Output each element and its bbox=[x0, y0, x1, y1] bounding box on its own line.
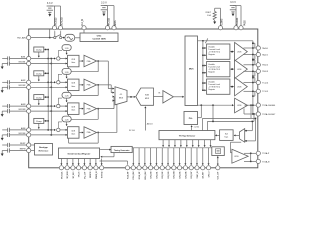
feedback loop channel 4 bbox=[97, 132, 99, 134]
line driver amplifier Q5 bbox=[232, 149, 248, 163]
CDS PGA block channel 4 bbox=[68, 127, 80, 139]
svg-text:TA-D1: TA-D1 bbox=[262, 53, 269, 56]
pin DIN_CH3 bbox=[166, 166, 170, 170]
wire stem DIN_CH2 bbox=[161, 148, 163, 165]
pin TX2A-CH0604 bbox=[256, 103, 260, 107]
wire mux bus to drivers bbox=[198, 40, 253, 42]
wire mux out bbox=[127, 96, 135, 98]
pin TC-D5 bbox=[256, 89, 260, 93]
wire stem FCLK_INM bbox=[132, 148, 134, 165]
svg-text:DIN_CH2: DIN_CH2 bbox=[162, 172, 164, 179]
svg-text:1 of 32: 1 of 32 bbox=[194, 127, 200, 129]
pin CLKIN bbox=[82, 26, 86, 30]
oscillator U2 bbox=[62, 37, 65, 39]
svg-text:SPI_SDO: SPI_SDO bbox=[73, 171, 75, 178]
svg-text:PWDN_IN: PWDN_IN bbox=[96, 171, 98, 179]
svg-text:Clamp: Clamp bbox=[36, 50, 43, 52]
PLL block bbox=[184, 112, 198, 125]
pin AVSS bbox=[112, 26, 116, 30]
svg-text:3.3 V: 3.3 V bbox=[47, 2, 53, 5]
svg-text:1 kΩ: 1 kΩ bbox=[207, 15, 212, 17]
svg-text:DGND33: DGND33 bbox=[61, 17, 64, 26]
svg-text:DIN_CH0: DIN_CH0 bbox=[151, 172, 153, 179]
wire serial stem IRQ_OUT bbox=[83, 159, 85, 165]
amplifier A4 bbox=[79, 131, 83, 133]
svg-text:TA-D0: TA-D0 bbox=[262, 47, 269, 50]
pin FCLK_INM bbox=[131, 166, 135, 170]
input coupling caps C7 C8 bbox=[2, 129, 8, 131]
svg-text:Clamp: Clamp bbox=[36, 97, 43, 99]
wire serial to timing bbox=[100, 149, 110, 151]
timing generator block bbox=[111, 146, 132, 152]
amplifier A3 bbox=[79, 108, 83, 110]
register block 3 bbox=[207, 79, 230, 94]
clamp block channel 2 bbox=[34, 71, 44, 76]
svg-text:DIN_CH7: DIN_CH7 bbox=[191, 172, 193, 179]
wires reference to bandgap bbox=[31, 144, 35, 146]
pin DIN_CH4 bbox=[172, 166, 176, 170]
wire tap mux to taps block bbox=[234, 134, 239, 136]
pin PWDN_IN bbox=[94, 166, 98, 170]
wire clamp-out channel 1 bbox=[44, 49, 48, 51]
svg-text:Register: Register bbox=[208, 53, 215, 56]
wire stem DIN_CH1 bbox=[155, 148, 157, 165]
ground (input group 3) bbox=[1, 111, 3, 114]
register block 2 bbox=[207, 62, 230, 77]
reference caps C9 C10 bbox=[2, 144, 8, 146]
svg-text:Taps: Taps bbox=[224, 136, 228, 138]
wire HIZ_AIN bbox=[31, 37, 54, 39]
pin TX2A-CH1007 bbox=[256, 112, 260, 116]
input coupling caps C3 C4 bbox=[2, 81, 8, 83]
svg-text:IRQ_OUT: IRQ_OUT bbox=[84, 171, 86, 179]
clamp block channel 1 bbox=[34, 47, 44, 52]
svg-text:DIN_CH4: DIN_CH4 bbox=[174, 172, 176, 179]
input coupling caps C5 C6 bbox=[2, 105, 8, 107]
pin SPI_CS bbox=[77, 166, 81, 170]
wire channel 4 to mux bbox=[97, 131, 117, 133]
svg-text:DIN_CH3: DIN_CH3 bbox=[168, 172, 170, 179]
pin AVDD bbox=[105, 26, 109, 30]
svg-text:HIZ_AIN: HIZ_AIN bbox=[17, 37, 26, 40]
driver 1 output wires bbox=[244, 47, 257, 49]
pin DIN_CH0 bbox=[149, 166, 153, 170]
svg-text:8x4: 8x4 bbox=[225, 133, 228, 135]
wire MICIN3 row bbox=[31, 110, 67, 112]
svg-text:TESTMD: TESTMD bbox=[102, 171, 104, 178]
svg-text:TX1A-P: TX1A-P bbox=[262, 152, 270, 155]
wire amp to output mux bbox=[173, 96, 183, 98]
pin DGND bbox=[58, 26, 62, 30]
ground (input group 2) bbox=[1, 87, 3, 90]
pin DIN_CH7 bbox=[189, 166, 193, 170]
wires into register block 1 bbox=[203, 47, 206, 49]
pin PVDD bbox=[234, 26, 238, 30]
pin PVSS bbox=[239, 26, 243, 30]
svg-text:ADCLK: ADCLK bbox=[147, 123, 154, 126]
svg-text:REFM: REFM bbox=[20, 148, 26, 150]
wire supply-left to pins bbox=[50, 5, 61, 7]
wire stem DIN_CH0 bbox=[150, 148, 152, 165]
wire VCM to pin bbox=[217, 156, 219, 166]
svg-text:TB-D3: TB-D3 bbox=[262, 71, 269, 73]
input coupling caps C1 C2 bbox=[2, 58, 8, 60]
svg-text:RESETB: RESETB bbox=[90, 171, 92, 178]
wire supply-center to pins bbox=[104, 5, 114, 7]
gain trim block channel 2 bbox=[62, 69, 71, 75]
pin TA-D0 bbox=[256, 46, 260, 50]
tap mux 2:1 bbox=[239, 129, 244, 143]
svg-text:MUX: MUX bbox=[145, 98, 150, 100]
svg-text:FCLK_INM: FCLK_INM bbox=[133, 171, 135, 179]
wire MICIN4 row bbox=[31, 134, 67, 136]
pin IRQ_OUT bbox=[82, 166, 86, 170]
clamp block channel 3 bbox=[34, 95, 44, 100]
svg-text:PVDD33: PVDD33 bbox=[236, 17, 239, 26]
svg-text:Serial Interface/Register: Serial Interface/Register bbox=[68, 153, 91, 156]
gain trim block channel 1 bbox=[62, 45, 71, 51]
wire MICIN1 row bbox=[31, 63, 67, 65]
wire mux to driver 4 bbox=[197, 104, 233, 106]
svg-text:AVSS: AVSS bbox=[114, 20, 117, 26]
svg-text:MICIN4: MICIN4 bbox=[19, 133, 27, 135]
summing node channel 1 bbox=[57, 57, 60, 60]
svg-text:Clamp: Clamp bbox=[36, 121, 43, 123]
mux 4:1 bbox=[115, 87, 127, 105]
driver amplifier Q4 bbox=[235, 98, 248, 113]
amplifier A2 bbox=[79, 84, 83, 86]
pin BCLK_INP bbox=[137, 166, 141, 170]
svg-text:Gain: Gain bbox=[71, 134, 75, 136]
svg-text:Gain: Gain bbox=[71, 86, 75, 88]
wire MICIN2 row bbox=[31, 86, 67, 88]
sub mux S-H bbox=[136, 88, 154, 105]
tap selector output stems bbox=[162, 140, 164, 147]
wire serial stem RESETB bbox=[89, 159, 91, 165]
serial interface block bbox=[59, 148, 100, 159]
pin SPI_SCLK bbox=[59, 166, 63, 170]
svg-text:CLK_RET: CLK_RET bbox=[203, 171, 205, 179]
driver amplifier Q3 bbox=[230, 86, 234, 88]
pin TB-D2 bbox=[256, 63, 260, 67]
summing node channel 2 bbox=[57, 81, 60, 84]
svg-text:Gain: Gain bbox=[71, 62, 75, 64]
pin DIN_CH5 bbox=[178, 166, 182, 170]
svg-text:TX2A-CH0604: TX2A-CH0604 bbox=[262, 104, 276, 107]
wire taps to tap selector bbox=[216, 134, 220, 136]
bandgap reference block bbox=[35, 144, 53, 156]
ground (input group 1) bbox=[1, 64, 3, 67]
tap selector block bbox=[159, 131, 215, 140]
svg-text:Register: Register bbox=[208, 70, 215, 73]
svg-text:4:1: 4:1 bbox=[120, 94, 123, 96]
svg-text:REFP: REFP bbox=[20, 143, 26, 145]
svg-text:R_BIAS: R_BIAS bbox=[221, 18, 224, 26]
CDS PGA block channel 3 bbox=[68, 103, 80, 115]
line driver output wires bbox=[244, 152, 256, 154]
svg-text:Bandgap: Bandgap bbox=[39, 147, 48, 149]
driver 3 output wires bbox=[244, 82, 257, 84]
svg-text:MUX: MUX bbox=[189, 68, 194, 70]
feedback loop channel 3 bbox=[97, 108, 99, 110]
wire serial stem SPI_SCLK bbox=[60, 159, 62, 165]
svg-text:TC-D4: TC-D4 bbox=[262, 82, 269, 84]
svg-text:DVDD33: DVDD33 bbox=[55, 17, 58, 26]
driver supply rail bbox=[252, 41, 254, 114]
gain trim block channel 4 bbox=[62, 116, 71, 122]
svg-text:MUX: MUX bbox=[119, 97, 124, 99]
wire stem DIN_CH7 bbox=[190, 148, 192, 165]
svg-text:Timing Generator: Timing Generator bbox=[114, 149, 130, 152]
svg-text:CLOCK GEN: CLOCK GEN bbox=[92, 39, 106, 41]
pin TX1A-P bbox=[256, 151, 260, 155]
wire stem BCLK_INM bbox=[144, 148, 146, 165]
wire stem DIN_CH4 bbox=[173, 148, 175, 165]
register block 1 bbox=[207, 44, 230, 59]
summing node channel 3 bbox=[57, 104, 60, 107]
clamp block channel 4 bbox=[34, 118, 44, 123]
taps block 8x4 bbox=[220, 130, 234, 141]
svg-text:OSC: OSC bbox=[97, 35, 102, 37]
pin FCLK_INP bbox=[125, 166, 129, 170]
wire clamp-out channel 3 bbox=[44, 96, 48, 98]
svg-text:BCLK_INP: BCLK_INP bbox=[139, 171, 141, 179]
svg-text:MICIN2: MICIN2 bbox=[19, 85, 27, 87]
svg-text:BCLK_INM: BCLK_INM bbox=[145, 171, 147, 179]
svg-text:VCM_OUT: VCM_OUT bbox=[218, 171, 220, 180]
driver 4 output wires bbox=[245, 104, 257, 106]
CDS PGA block channel 2 bbox=[68, 79, 80, 91]
svg-text:TX1A-N: TX1A-N bbox=[262, 160, 270, 163]
wires into register block 2 bbox=[203, 65, 206, 67]
svg-text:TB-D2: TB-D2 bbox=[262, 65, 269, 67]
gain trim block channel 3 bbox=[62, 92, 71, 98]
svg-text:TC-D5: TC-D5 bbox=[262, 91, 269, 93]
wire serial stem TESTMD bbox=[101, 159, 103, 165]
wire stem DIN_CH3 bbox=[167, 148, 169, 165]
svg-text:SYNC_IN: SYNC_IN bbox=[197, 171, 199, 179]
pin TESTMD bbox=[100, 166, 104, 170]
svg-text:Clamp: Clamp bbox=[36, 74, 43, 76]
svg-text:Reference: Reference bbox=[39, 151, 50, 153]
wire stem CLK_RET bbox=[202, 148, 204, 165]
svg-text:SPI_SDIN: SPI_SDIN bbox=[67, 171, 69, 179]
wire channel 3 to mux bbox=[97, 108, 114, 110]
driver amplifier Q1 bbox=[230, 51, 234, 53]
wire clamp-out channel 4 bbox=[44, 120, 48, 122]
pin GPIO_0 bbox=[206, 166, 210, 170]
svg-text:FCLK_INP: FCLK_INP bbox=[127, 171, 129, 179]
svg-text:DIN_CH5: DIN_CH5 bbox=[180, 172, 182, 179]
svg-text:TX Tap Selector: TX Tap Selector bbox=[179, 135, 196, 138]
wire AIN4 row bbox=[31, 129, 55, 131]
svg-text:TX2A-CH1007: TX2A-CH1007 bbox=[262, 113, 276, 116]
wire serial stem SPI_CS bbox=[78, 159, 80, 165]
wire supply-right to pins bbox=[233, 5, 241, 7]
svg-text:DIN_CH6: DIN_CH6 bbox=[185, 172, 187, 179]
svg-text:RSET: RSET bbox=[206, 12, 212, 14]
wire serial to pin row bbox=[100, 160, 128, 162]
IC boundary bbox=[29, 29, 258, 168]
analog bus B bbox=[50, 59, 52, 135]
svg-text:SPI_CS: SPI_CS bbox=[79, 171, 81, 177]
timing bus line bbox=[132, 147, 212, 149]
pin DIN_CH1 bbox=[154, 166, 158, 170]
switch S1 bbox=[54, 37, 56, 39]
pin TC-D4 bbox=[256, 80, 260, 84]
svg-text:3.3 V: 3.3 V bbox=[101, 2, 107, 5]
svg-text:MICIN3: MICIN3 bbox=[19, 109, 27, 111]
VCM buffer bbox=[212, 147, 225, 156]
wire stem BCLK_INP bbox=[138, 148, 140, 165]
output mux U4 bbox=[185, 36, 198, 106]
pin TX1A-N bbox=[256, 159, 260, 163]
driver 2 output wires bbox=[244, 64, 257, 66]
pin SPI_SDO bbox=[71, 166, 75, 170]
pin TB-D3 bbox=[256, 69, 260, 73]
wire taps to line driver bbox=[231, 141, 242, 143]
svg-text:SPI_SCLK: SPI_SCLK bbox=[61, 171, 63, 179]
wire channel 1 to mux bbox=[97, 60, 109, 62]
wire osc to clock gen bbox=[75, 37, 80, 39]
TX loopback wires bbox=[250, 104, 252, 106]
pin DIN_CH2 bbox=[160, 166, 164, 170]
wire stem SYNC_IN bbox=[196, 148, 198, 165]
amplifier A1 bbox=[79, 60, 83, 62]
svg-text:Register: Register bbox=[208, 88, 215, 91]
svg-text:DIN_CH1: DIN_CH1 bbox=[156, 172, 158, 179]
svg-text:GPIO_0: GPIO_0 bbox=[208, 171, 210, 177]
wire stem DIN_CH6 bbox=[184, 148, 186, 165]
wire AIN3 row bbox=[31, 105, 55, 107]
svg-text:MICIN1: MICIN1 bbox=[19, 61, 27, 63]
ground (reference) bbox=[1, 151, 3, 154]
adc driver amp A5 bbox=[163, 91, 174, 103]
analog bus A bbox=[47, 50, 49, 130]
clock generator U3 bbox=[80, 33, 118, 42]
pin RESETB bbox=[88, 166, 92, 170]
pin TA-D1 bbox=[256, 52, 260, 56]
feedback loop channel 2 bbox=[97, 84, 99, 86]
wire stem GPIO_0 bbox=[208, 148, 210, 165]
wire S-H to amp bbox=[154, 96, 163, 98]
pin BIAS bbox=[218, 26, 222, 30]
wire AIN1 row bbox=[31, 58, 55, 60]
wire tap mux inputs bbox=[245, 130, 253, 132]
svg-text:AVDD33: AVDD33 bbox=[108, 17, 111, 26]
tap wire to S-H bbox=[144, 107, 146, 130]
wire timing to serial bbox=[113, 153, 115, 157]
pin BCLK_INM bbox=[143, 166, 147, 170]
svg-text:PVSS: PVSS bbox=[243, 20, 246, 26]
svg-text:CLK_IN: CLK_IN bbox=[81, 18, 84, 26]
wire serial stem SPI_SDO bbox=[72, 159, 74, 165]
wire clamp-out channel 2 bbox=[44, 72, 48, 74]
wire AIN2 row bbox=[31, 81, 55, 83]
feedback loop channel 1 bbox=[97, 60, 99, 62]
svg-text:3.3 V: 3.3 V bbox=[230, 1, 236, 4]
wire tap selector to PLL bbox=[191, 126, 193, 131]
pin CLK_RET bbox=[201, 166, 205, 170]
wire stem DIN_CH5 bbox=[179, 148, 181, 165]
wire serial stem SPI_SDIN bbox=[66, 159, 68, 165]
svg-text:Gain: Gain bbox=[71, 110, 75, 112]
wire PLL feed bbox=[200, 105, 202, 118]
pin SPI_SDIN bbox=[65, 166, 69, 170]
driver amplifier Q2 bbox=[230, 68, 234, 70]
wires into register block 3 bbox=[203, 82, 206, 84]
pin SYNC_IN bbox=[195, 166, 199, 170]
wire serial stem PWDN_IN bbox=[95, 159, 97, 165]
wire channel 2 to mux bbox=[97, 84, 112, 86]
pin VCM bbox=[216, 166, 220, 170]
pin DIN_CH6 bbox=[183, 166, 187, 170]
CDS PGA block channel 1 bbox=[68, 55, 80, 67]
svg-text:D7–D0: D7–D0 bbox=[129, 130, 135, 132]
pin DVDD bbox=[52, 26, 56, 30]
ground (input group 4) bbox=[1, 135, 3, 138]
summing node channel 4 bbox=[57, 128, 60, 131]
